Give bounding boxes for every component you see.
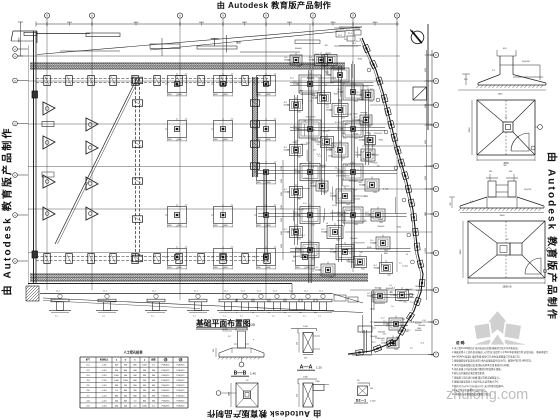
svg-text:JL-3: JL-3 bbox=[322, 167, 326, 169]
pedestal at x=245 bbox=[236, 299, 254, 302]
svg-text:4800: 4800 bbox=[425, 212, 427, 216]
svg-text:500: 500 bbox=[325, 45, 328, 47]
svg-text:由 Autodesk 教育版产品制作: 由 Autodesk 教育版产品制作 bbox=[1, 127, 14, 296]
svg-text:F16@15: F16@15 bbox=[162, 375, 171, 377]
left wall pilaster bbox=[32, 91, 38, 98]
svg-text:Φ500: Φ500 bbox=[379, 139, 383, 142]
svg-text:3600: 3600 bbox=[469, 127, 471, 133]
svg-text:Φ500: Φ500 bbox=[366, 132, 370, 135]
svg-text:1800: 1800 bbox=[399, 301, 403, 303]
svg-text:ZJ-1: ZJ-1 bbox=[367, 146, 371, 148]
svg-text:300x600: 300x600 bbox=[364, 117, 371, 119]
detail 4: pile cap plan rectangle bbox=[468, 221, 545, 278]
svg-text:F16@15: F16@15 bbox=[177, 390, 186, 392]
svg-text:ZJ-1: ZJ-1 bbox=[290, 78, 294, 80]
svg-text:500: 500 bbox=[298, 198, 301, 200]
svg-text:4800: 4800 bbox=[425, 176, 427, 180]
svg-text:1.800: 1.800 bbox=[303, 377, 308, 379]
plan bottom-right corner lines bbox=[291, 284, 293, 294]
svg-text:300x600: 300x600 bbox=[293, 256, 300, 258]
svg-text:300x600: 300x600 bbox=[310, 186, 317, 188]
svg-text:ZJ-2: ZJ-2 bbox=[348, 33, 352, 35]
svg-text:1800: 1800 bbox=[498, 94, 504, 96]
svg-text:1500: 1500 bbox=[403, 302, 407, 304]
svg-text:F16@15: F16@15 bbox=[177, 400, 186, 402]
svg-text:ZJ-2: ZJ-2 bbox=[340, 29, 344, 31]
svg-text:1800: 1800 bbox=[324, 137, 328, 139]
svg-text:JL-3: JL-3 bbox=[386, 325, 390, 327]
svg-text:J-4: J-4 bbox=[390, 292, 393, 294]
svg-text:JL-7(2): JL-7(2) bbox=[383, 188, 389, 190]
svg-text:300x600: 300x600 bbox=[367, 296, 374, 298]
svg-text:F16@15: F16@15 bbox=[177, 380, 186, 382]
north symbol circle bbox=[411, 31, 424, 44]
svg-text:4800: 4800 bbox=[373, 22, 379, 24]
svg-text:4800: 4800 bbox=[425, 140, 427, 144]
svg-text:ZJ-1: ZJ-1 bbox=[315, 53, 319, 55]
svg-text:1500: 1500 bbox=[281, 192, 283, 196]
svg-text:300x600: 300x600 bbox=[359, 140, 366, 142]
svg-text:F16@15: F16@15 bbox=[177, 406, 186, 408]
svg-text:ZJ-1: ZJ-1 bbox=[410, 301, 414, 303]
svg-text:300x600: 300x600 bbox=[353, 198, 360, 200]
pedestal at x=308 bbox=[299, 299, 317, 302]
svg-text:1500: 1500 bbox=[281, 244, 283, 248]
svg-text:ZJ-1: ZJ-1 bbox=[342, 133, 346, 135]
section strip ground diagonal bbox=[43, 298, 363, 313]
svg-text:ZJ-1: ZJ-1 bbox=[405, 290, 409, 292]
vertical column strip mid bbox=[135, 78, 137, 258]
svg-text:JL-3: JL-3 bbox=[303, 203, 307, 205]
right inner dimension line bbox=[426, 50, 428, 300]
svg-text:1-1: 1-1 bbox=[256, 316, 259, 318]
svg-text:ZJ-1: ZJ-1 bbox=[292, 261, 296, 263]
pedestal at x=277 bbox=[268, 299, 286, 302]
svg-text:-1.50: -1.50 bbox=[102, 380, 108, 382]
svg-text:300x600: 300x600 bbox=[315, 270, 322, 272]
svg-text:300x600: 300x600 bbox=[418, 325, 425, 327]
svg-text:500: 500 bbox=[213, 349, 215, 352]
svg-text:300x600: 300x600 bbox=[415, 322, 422, 324]
svg-text:500: 500 bbox=[322, 144, 325, 146]
svg-text:500: 500 bbox=[299, 90, 302, 92]
svg-text:Φ500: Φ500 bbox=[318, 94, 322, 97]
svg-text:1500: 1500 bbox=[381, 303, 385, 305]
svg-text:4800: 4800 bbox=[242, 22, 248, 24]
detail B-B footing section bbox=[219, 356, 264, 358]
pile schedule table bbox=[80, 356, 188, 358]
svg-text:14@150: 14@150 bbox=[524, 189, 531, 191]
svg-text:1500: 1500 bbox=[387, 275, 391, 277]
pedestal at x=156 bbox=[147, 299, 165, 302]
svg-text:300x600: 300x600 bbox=[319, 165, 326, 167]
pedestal at x=323 bbox=[314, 299, 332, 302]
svg-text:JL-7(2): JL-7(2) bbox=[346, 114, 352, 116]
svg-text:Φ500: Φ500 bbox=[354, 264, 358, 267]
svg-text:4800: 4800 bbox=[425, 68, 427, 72]
svg-text:1-1: 1-1 bbox=[151, 316, 154, 318]
svg-text:由 Autodesk 教育版产品制作: 由 Autodesk 教育版产品制作 bbox=[217, 0, 332, 10]
svg-text:ZJ-2: ZJ-2 bbox=[338, 35, 342, 37]
svg-text:1800: 1800 bbox=[325, 53, 329, 55]
svg-text:Φ500: Φ500 bbox=[396, 226, 400, 229]
bottom hatched wall strip bbox=[30, 274, 368, 281]
section strip top line bbox=[40, 293, 332, 295]
svg-text:300x600: 300x600 bbox=[307, 78, 314, 80]
detail 3: double-stub footing section bbox=[460, 207, 544, 209]
svg-text:4800: 4800 bbox=[199, 22, 205, 24]
svg-text:ZJ-1: ZJ-1 bbox=[306, 143, 310, 145]
svg-text:300x600: 300x600 bbox=[284, 105, 291, 107]
svg-text:3600 (4): 3600 (4) bbox=[503, 286, 512, 289]
svg-text:1500: 1500 bbox=[281, 205, 283, 209]
svg-text:2-2: 2-2 bbox=[310, 100, 313, 102]
svg-text:1500: 1500 bbox=[373, 192, 377, 194]
svg-text:JL-7(2): JL-7(2) bbox=[361, 159, 367, 161]
svg-text:JL-7(2): JL-7(2) bbox=[350, 163, 356, 165]
right vertical dimension line bbox=[431, 50, 433, 356]
svg-text:1500: 1500 bbox=[281, 218, 283, 222]
svg-text:1500: 1500 bbox=[371, 146, 375, 148]
detail A-A wall section bbox=[303, 333, 313, 353]
svg-text:人工挖孔桩表: 人工挖孔桩表 bbox=[122, 350, 143, 355]
svg-text:1800: 1800 bbox=[328, 156, 332, 158]
svg-text:2-2: 2-2 bbox=[318, 156, 321, 158]
svg-text:300x600: 300x600 bbox=[355, 155, 362, 157]
svg-text:1-1: 1-1 bbox=[318, 316, 321, 318]
svg-text:±0.000: ±0.000 bbox=[222, 329, 228, 331]
svg-text:1-1: 1-1 bbox=[240, 316, 243, 318]
svg-text:J-4: J-4 bbox=[326, 223, 329, 225]
top band room outlines bbox=[150, 44, 180, 49]
svg-text:4800: 4800 bbox=[331, 22, 337, 24]
svg-text:F16@15: F16@15 bbox=[162, 385, 171, 387]
svg-text:ZJ-2: ZJ-2 bbox=[346, 30, 350, 32]
grade beams right zone vertical bbox=[308, 70, 310, 283]
svg-text:1-1: 1-1 bbox=[55, 316, 58, 318]
svg-text:Φ500: Φ500 bbox=[341, 202, 345, 205]
pedestal at x=261 bbox=[252, 299, 270, 302]
right axis bubbles bbox=[433, 52, 438, 57]
svg-text:2-2: 2-2 bbox=[228, 336, 231, 338]
svg-text:JL-3: JL-3 bbox=[358, 182, 362, 184]
svg-text:300x600: 300x600 bbox=[284, 232, 291, 234]
svg-text:300x600: 300x600 bbox=[349, 181, 356, 183]
svg-text:300x600: 300x600 bbox=[330, 252, 337, 254]
svg-text:J-4: J-4 bbox=[335, 167, 338, 169]
svg-text:JL-3: JL-3 bbox=[320, 184, 324, 186]
svg-text:1500: 1500 bbox=[394, 349, 398, 351]
ramp triangles column 2 bbox=[86, 118, 98, 131]
svg-text:J-4: J-4 bbox=[325, 84, 328, 86]
svg-text:ZJ-1: ZJ-1 bbox=[423, 320, 427, 322]
svg-text:2400: 2400 bbox=[229, 392, 231, 396]
svg-text:450: 450 bbox=[489, 171, 492, 173]
svg-text:300x600: 300x600 bbox=[415, 330, 422, 332]
svg-text:1500: 1500 bbox=[346, 204, 350, 206]
svg-text:B—B: B—B bbox=[234, 371, 247, 377]
svg-text:ZJ-1: ZJ-1 bbox=[364, 196, 368, 198]
svg-text:1500: 1500 bbox=[331, 67, 335, 69]
svg-text:500: 500 bbox=[377, 166, 380, 168]
svg-text:1500: 1500 bbox=[281, 179, 283, 183]
svg-text:2-2: 2-2 bbox=[343, 138, 346, 140]
detail B-B pile cap plan bbox=[236, 383, 258, 407]
svg-text:Φ500: Φ500 bbox=[313, 95, 317, 98]
svg-text:250: 250 bbox=[304, 358, 307, 360]
svg-text:1500: 1500 bbox=[367, 126, 371, 128]
svg-text:450: 450 bbox=[509, 171, 512, 173]
svg-text:1-1: 1-1 bbox=[272, 316, 275, 318]
svg-text:300x600: 300x600 bbox=[326, 110, 333, 112]
svg-text:16@200: 16@200 bbox=[522, 61, 530, 63]
svg-text:ZJ-1: ZJ-1 bbox=[305, 178, 309, 180]
svg-text:ZJ-1: ZJ-1 bbox=[301, 235, 305, 237]
svg-text:300x600: 300x600 bbox=[357, 99, 364, 101]
svg-text:1500: 1500 bbox=[325, 105, 329, 107]
svg-text:F16@15: F16@15 bbox=[177, 365, 186, 367]
svg-text:ZJ-1: ZJ-1 bbox=[383, 333, 387, 335]
svg-text:300x600: 300x600 bbox=[337, 172, 344, 174]
svg-text:JL-7(2): JL-7(2) bbox=[363, 86, 369, 88]
svg-text:F16@15: F16@15 bbox=[162, 380, 171, 382]
svg-text:-1.50: -1.50 bbox=[102, 365, 108, 367]
svg-text:-1.50: -1.50 bbox=[102, 370, 108, 372]
svg-text:1500: 1500 bbox=[328, 149, 332, 151]
svg-text:4800: 4800 bbox=[67, 22, 73, 24]
svg-text:300x600: 300x600 bbox=[284, 192, 291, 194]
svg-text:1.500: 1.500 bbox=[303, 326, 308, 328]
dense zone short dimension lines bbox=[332, 186, 334, 200]
svg-text:F16@15: F16@15 bbox=[162, 406, 171, 408]
svg-text:300x600: 300x600 bbox=[375, 303, 382, 305]
svg-text:1800: 1800 bbox=[378, 219, 382, 221]
svg-text:1-1: 1-1 bbox=[193, 316, 196, 318]
svg-text:JL-3: JL-3 bbox=[335, 146, 339, 148]
zhulong logo watermark bbox=[469, 310, 534, 346]
svg-text:2400: 2400 bbox=[500, 215, 506, 217]
svg-text:1800: 1800 bbox=[370, 217, 374, 219]
svg-text:300x600: 300x600 bbox=[337, 215, 344, 217]
plan bottom edge bbox=[28, 283, 292, 285]
svg-text:1800: 1800 bbox=[292, 229, 296, 231]
footing cluster dense right zone bbox=[299, 75, 321, 93]
svg-text:JL-3: JL-3 bbox=[338, 198, 342, 200]
tiny circles along curve bbox=[367, 68, 371, 72]
bulge interior stubs bbox=[363, 330, 365, 353]
svg-text:F16@15: F16@15 bbox=[177, 385, 186, 387]
svg-text:2800: 2800 bbox=[460, 249, 462, 255]
svg-text:F16@15: F16@15 bbox=[162, 395, 171, 397]
svg-text:Φ500: Φ500 bbox=[371, 153, 375, 156]
svg-text:1500: 1500 bbox=[297, 66, 301, 68]
svg-text:250: 250 bbox=[297, 342, 299, 345]
svg-text:1-1: 1-1 bbox=[223, 316, 226, 318]
grade beams right zone horizontal bbox=[290, 82, 374, 84]
grade beams bulge bbox=[372, 294, 414, 296]
detail 1: footing section top right bbox=[478, 84, 546, 86]
pedestal at x=60 bbox=[51, 299, 69, 302]
svg-text:ZJ-2: ZJ-2 bbox=[356, 41, 360, 43]
vertical strip column rects bbox=[251, 100, 260, 107]
left wall column rect row4 bbox=[42, 122, 54, 127]
svg-text:-1.50: -1.50 bbox=[102, 406, 108, 408]
svg-text:150: 150 bbox=[370, 388, 373, 390]
svg-text:250: 250 bbox=[297, 394, 299, 397]
svg-text:1500: 1500 bbox=[329, 277, 333, 279]
svg-text:1800: 1800 bbox=[293, 142, 297, 144]
svg-text:ZJ-1: ZJ-1 bbox=[357, 169, 361, 171]
svg-text:F16@15: F16@15 bbox=[177, 375, 186, 377]
svg-text:300x600: 300x600 bbox=[350, 238, 357, 240]
svg-text:1:40: 1:40 bbox=[250, 372, 256, 376]
svg-text:2-2: 2-2 bbox=[353, 84, 356, 86]
plan left border wall bbox=[33, 31, 35, 284]
svg-text:1500: 1500 bbox=[281, 231, 283, 235]
svg-text:1500: 1500 bbox=[323, 192, 327, 194]
svg-text:JL-3: JL-3 bbox=[332, 205, 336, 207]
svg-text:1-1: 1-1 bbox=[102, 316, 105, 318]
svg-text:1800: 1800 bbox=[345, 213, 349, 215]
svg-text:JL-3: JL-3 bbox=[381, 317, 385, 319]
svg-text:-1.50: -1.50 bbox=[102, 395, 108, 397]
svg-text:J-4: J-4 bbox=[406, 254, 409, 256]
svg-text:2-2: 2-2 bbox=[349, 253, 352, 255]
svg-text:1:100: 1:100 bbox=[245, 322, 256, 327]
top-left corner notch bbox=[13, 30, 37, 32]
detail lower wall section with ledge bbox=[303, 383, 313, 407]
svg-text:300x600: 300x600 bbox=[295, 48, 302, 50]
svg-text:J-4: J-4 bbox=[395, 295, 398, 297]
svg-text:J-4: J-4 bbox=[341, 159, 344, 161]
plan right border bbox=[427, 24, 429, 130]
pedestal at x=107 bbox=[98, 299, 116, 302]
svg-text:JL-3: JL-3 bbox=[325, 71, 329, 73]
svg-text:1500: 1500 bbox=[379, 222, 383, 224]
svg-text:500: 500 bbox=[302, 255, 305, 257]
svg-text:1500: 1500 bbox=[336, 240, 340, 242]
svg-text:F16@15: F16@15 bbox=[162, 370, 171, 372]
pile caps along curved edge bbox=[363, 44, 371, 52]
bulge interior boundary lines bbox=[371, 291, 373, 354]
svg-text:JL-7(2): JL-7(2) bbox=[335, 122, 341, 124]
svg-text:300x600: 300x600 bbox=[337, 129, 344, 131]
svg-text:由 Autodesk 教育版产品制作: 由 Autodesk 教育版产品制作 bbox=[546, 152, 559, 321]
svg-text:1:100: 1:100 bbox=[370, 401, 376, 403]
left-of-bulge dimension stack bbox=[282, 160, 284, 260]
svg-text:J-4: J-4 bbox=[370, 89, 373, 91]
vertical wall strip right of parking bbox=[253, 77, 258, 177]
svg-text:1500: 1500 bbox=[384, 250, 388, 252]
svg-text:Φ500: Φ500 bbox=[334, 93, 338, 96]
svg-text:300x600: 300x600 bbox=[321, 232, 328, 234]
svg-text:4800: 4800 bbox=[134, 22, 140, 24]
svg-text:4800: 4800 bbox=[425, 248, 427, 252]
svg-text:坡道: 坡道 bbox=[236, 40, 241, 44]
svg-text:1800: 1800 bbox=[417, 328, 421, 330]
svg-text:300x600: 300x600 bbox=[386, 288, 393, 290]
top hatched wall strip bbox=[30, 63, 345, 69]
svg-text:Φ500: Φ500 bbox=[358, 57, 362, 60]
svg-text:1:20: 1:20 bbox=[316, 366, 322, 370]
svg-text:-1.50: -1.50 bbox=[102, 385, 108, 387]
horizontal grid lines bbox=[28, 55, 400, 57]
top axis bubbles bbox=[44, 13, 49, 18]
svg-text:J-4: J-4 bbox=[410, 347, 413, 349]
svg-text:500: 500 bbox=[450, 203, 452, 206]
svg-text:2-2: 2-2 bbox=[367, 187, 370, 189]
svg-text:300x600: 300x600 bbox=[284, 150, 291, 152]
svg-text:300x600: 300x600 bbox=[348, 262, 355, 264]
svg-text:500: 500 bbox=[317, 144, 320, 146]
svg-text:Φ500: Φ500 bbox=[373, 161, 377, 164]
svg-text:300x600: 300x600 bbox=[356, 95, 363, 97]
svg-text:1800: 1800 bbox=[338, 100, 342, 102]
svg-text:3400: 3400 bbox=[19, 37, 21, 43]
svg-text:-1.50: -1.50 bbox=[102, 390, 108, 392]
svg-text:1500: 1500 bbox=[361, 269, 365, 271]
right partial grid rows bbox=[370, 104, 432, 106]
svg-text:说 明:: 说 明: bbox=[456, 340, 465, 345]
svg-text:J-4: J-4 bbox=[304, 120, 307, 122]
svg-text:JL-7(2): JL-7(2) bbox=[298, 209, 304, 211]
section strip left hatched block bbox=[26, 286, 39, 301]
svg-text:1800: 1800 bbox=[370, 308, 374, 310]
svg-text:1500: 1500 bbox=[322, 67, 326, 69]
svg-text:J-4: J-4 bbox=[292, 64, 295, 66]
svg-text:F16@15: F16@15 bbox=[162, 365, 171, 367]
svg-text:300x600: 300x600 bbox=[354, 120, 361, 122]
svg-text:Φ500: Φ500 bbox=[354, 132, 358, 135]
svg-text:J-4: J-4 bbox=[345, 165, 348, 167]
svg-text:300x600: 300x600 bbox=[330, 196, 337, 198]
svg-text:300x600: 300x600 bbox=[309, 60, 316, 62]
svg-text:2-2: 2-2 bbox=[300, 164, 303, 166]
svg-text:J-4: J-4 bbox=[391, 306, 394, 308]
pedestal at x=293 bbox=[284, 299, 302, 302]
svg-text:2-2: 2-2 bbox=[399, 263, 402, 265]
svg-text:300x600: 300x600 bbox=[378, 338, 385, 340]
ramp diagonal line bbox=[55, 78, 137, 244]
svg-text:2-2: 2-2 bbox=[352, 87, 355, 89]
svg-text:-1.50: -1.50 bbox=[102, 375, 108, 377]
svg-text:JL-3: JL-3 bbox=[420, 343, 424, 345]
ramp wedge line 2 bbox=[150, 30, 360, 51]
svg-text:J-4: J-4 bbox=[373, 328, 376, 330]
svg-text:ZJ-1: ZJ-1 bbox=[407, 329, 411, 331]
top dimension line bbox=[36, 23, 399, 25]
left vertical dimension line bbox=[20, 22, 22, 56]
svg-text:1800: 1800 bbox=[353, 114, 357, 116]
svg-text:1-1: 1-1 bbox=[303, 316, 306, 318]
svg-text:1800: 1800 bbox=[293, 147, 297, 149]
svg-text:1800: 1800 bbox=[384, 253, 388, 255]
svg-text:300x600: 300x600 bbox=[375, 288, 382, 290]
pedestal at x=228 bbox=[219, 299, 237, 302]
svg-text:300x600: 300x600 bbox=[370, 336, 377, 338]
svg-text:300x600: 300x600 bbox=[374, 268, 381, 270]
vertical grid lines bbox=[46, 26, 48, 290]
footing grid left columns bbox=[168, 76, 187, 93]
svg-text:1-1: 1-1 bbox=[288, 316, 291, 318]
svg-text:500: 500 bbox=[345, 124, 348, 126]
svg-text:JL-7(2): JL-7(2) bbox=[402, 266, 408, 268]
svg-text:300x600: 300x600 bbox=[312, 98, 319, 100]
svg-text:ZJ-1: ZJ-1 bbox=[370, 150, 374, 152]
svg-text:300x600: 300x600 bbox=[284, 60, 291, 62]
bottom column strip bbox=[36, 256, 268, 258]
svg-text:1500: 1500 bbox=[369, 101, 373, 103]
